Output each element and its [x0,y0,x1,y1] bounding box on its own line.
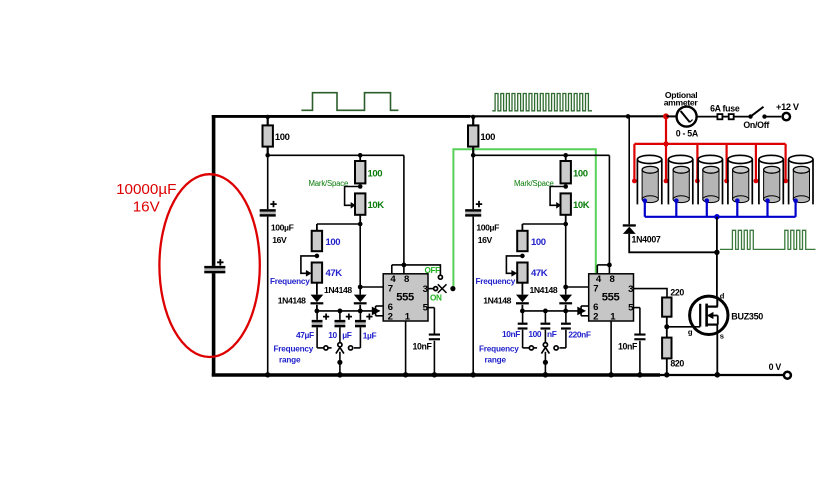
wire cap2 to sel osc2 [544,330,546,343]
wire pin5 to C U2 [639,308,641,334]
capacitor bank C2 (electrolytic can) [668,159,692,204]
selector contact 3 osc2 [554,346,558,350]
svg-text:1N4148: 1N4148 [324,285,352,295]
node A1 [265,153,270,158]
svg-text:Mark/Space: Mark/Space [514,179,554,188]
wire pin5 to C U1 [433,308,435,334]
wire 100uF top osc2 [472,155,474,209]
svg-text:3: 3 [423,284,428,295]
wire 10nF to 0V U1 [433,341,435,375]
svg-text:Frequency: Frequency [274,345,314,354]
svg-text:47K: 47K [326,268,343,279]
capacitor bank C1 (electrolytic can) [637,159,661,204]
svg-text:ammeter: ammeter [664,97,699,107]
svg-text:555: 555 [602,292,620,304]
svg-text:100: 100 [531,237,546,248]
wire 0V bottom rail [212,373,660,376]
selector contact 2 osc2 [543,343,547,347]
selector wiper arrow osc1 [336,347,344,353]
wire cap1 top stub osc1 [316,311,318,320]
capacitor 100uF osc1 [260,209,276,216]
wire mark chain to pin7/diode osc1 [359,224,361,295]
wire timing top osc2 [522,223,565,225]
svg-text:µF: µF [342,330,351,340]
junction pin1-rail U2 [608,372,613,377]
wire 10nF to 0V U2 [639,341,641,375]
wire pin2 stub U1 [376,315,384,317]
junction 100uF-rail osc1 [265,372,270,377]
wire 10K bottom osc2 [565,215,567,224]
wire pins 4-8 bracket U2 [597,264,609,266]
ammeter M1 [677,107,697,127]
selector contact 1 osc1 [324,346,328,350]
svg-text:Mark/Space: Mark/Space [309,179,349,188]
potentiometer 47K osc1 [312,263,322,283]
junction 820-rail [664,372,669,377]
junction mark pot wiper osc2 [563,184,568,189]
wire resistor R1a top stub [267,117,269,125]
wire node A2 to reset drop [473,154,609,156]
junction rail-cap2 osc2 [543,309,548,314]
svg-text:Frequency: Frequency [476,277,516,286]
wire timing rail osc2 [522,310,581,312]
svg-text:10K: 10K [573,200,590,211]
wire 1N4007 to drain node [629,234,717,252]
svg-text:range: range [485,355,507,364]
resistor 100 (R1a) [263,125,273,146]
wire node A1 to reset drop [268,154,404,156]
arrow into pin6 U1 [372,307,381,316]
fuse F1 6A [717,114,722,119]
wire red feed drop [665,116,667,143]
wire cap1 to sel osc1 [316,327,318,348]
svg-text:100: 100 [573,169,588,180]
wire pin6 stub U1 [376,305,384,307]
arrow into pin6 U2 [577,307,586,316]
wire pin3 U2 to R gate [634,289,668,298]
svg-text:1N4148: 1N4148 [278,295,306,305]
svg-text:6A fuse: 6A fuse [710,103,740,113]
wire timing rail osc1 [317,310,376,312]
svg-text:100: 100 [275,132,290,143]
wire R1a bottom stub [267,147,269,156]
junction reset node U1 [402,263,407,268]
diode 1N4148 D2b [559,295,572,303]
potentiometer 10K mark/space osc2 [561,193,571,214]
svg-text:+12 V: +12 V [776,102,800,112]
wire cap1 top stub osc2 [522,311,524,323]
terminal +12V [783,113,790,120]
junction pin7 node osc1 [358,285,363,290]
svg-text:220: 220 [670,287,684,297]
wire red + lead cap bank C5 [755,144,757,181]
wire 100uF top osc1 [267,155,269,209]
wire cap3 top stub osc1 [359,311,361,320]
svg-text:1N4148: 1N4148 [483,295,511,305]
wire mark chain stub osc2 [565,155,567,161]
junction timing top osc2 [563,222,568,227]
selector contact 3 osc1 [349,346,353,350]
wire gate node to gate [667,326,700,328]
wire pin6 stub U2 [581,305,589,307]
svg-text:10K: 10K [368,200,385,211]
svg-text:s: s [720,332,724,341]
svg-text:Frequency: Frequency [270,277,310,286]
wire pins 2-6 bracket U2 [580,306,582,316]
capacitor C2b osc2 [541,323,551,325]
polarity + cap2 osc1 [346,314,352,320]
junction wiper osc2 [543,360,548,365]
svg-text:0 V: 0 V [769,362,782,372]
capacitor 10nF U1 [429,334,440,336]
capacitor bank C5 (electrolytic can) [759,159,783,204]
wire blue - lead cap bank C1 [643,198,648,203]
junction gate node [664,324,669,329]
svg-text:100: 100 [326,237,341,248]
wire V+ top rail [212,115,470,118]
node A2 [471,153,476,158]
svg-text:220nF: 220nF [568,329,590,339]
wire blue - lead cap bank C5 [765,198,770,203]
diode 1N4007 D3 [623,224,636,226]
potentiometer 10K mark/space osc1 [355,193,365,214]
junction wiper osc1 [337,360,342,365]
svg-text:OFF: OFF [425,266,441,275]
transistor Q1 BUZ350 (MOSFET) [690,296,728,334]
wire resistor R2a top stub [472,117,474,125]
capacitor C1b osc1 [335,320,346,327]
svg-text:100: 100 [528,329,542,339]
capacitor C1a osc1 [312,320,323,327]
wire pins 2-6 bracket U1 [375,306,377,316]
wire 100uF to 0V osc1 [267,217,269,375]
junction pin1-rail U1 [403,372,408,377]
wire reset to OFF contact [404,265,441,275]
node V+ tap osc1 [266,115,270,119]
wire 10K bottom osc1 [359,215,361,224]
wire mark chain to pin7/diode osc2 [565,224,567,295]
wire cap bank to drain [716,217,718,296]
wire pin5 stub U1 [428,307,434,309]
wire pin8 stub U1 [403,265,405,274]
waveform square wave (osc1 output) [301,93,398,111]
svg-text:ON: ON [430,293,442,302]
wire pin1 to 0V U1 [405,321,407,375]
capacitor 100uF osc2 [465,209,481,216]
polarity + cap3 osc1 [366,314,372,320]
svg-text:820: 820 [670,359,684,369]
wire cap3 to sel osc2 [565,330,567,348]
svg-text:100µF: 100µF [271,223,294,233]
svg-text:1N4007: 1N4007 [632,234,661,244]
wire V+ to ammeter [666,115,677,117]
svg-text:555: 555 [396,292,414,304]
resistor 820 gate pulldown [662,338,671,359]
switch OFF contact circle [438,275,442,279]
wire cap3 to sel osc1 [359,327,361,348]
junction rail-cap1 osc2 [520,309,525,314]
wire wiper to 0V osc2 [544,352,546,375]
resistor 100 frequency osc1 [312,231,322,251]
capacitor bank C4 (electrolytic can) [728,159,752,204]
terminal 0V [784,372,791,379]
wire pin3 output U1 [428,288,434,290]
junction 100uF-rail osc2 [471,372,476,377]
resistor 100 (R2a) [468,125,478,146]
wire to pin 7 osc2 [566,286,589,288]
svg-text:100: 100 [480,132,495,143]
wire D1b to rail [359,305,361,311]
wire cap2 to sel osc1 [339,327,341,342]
svg-text:BUZ350: BUZ350 [731,312,763,322]
wire pin4 stub U2 [596,265,598,274]
junction reset node U2 [607,263,612,268]
wire gating (green) osc1 output to osc2 reset [453,149,595,288]
wire wiper to 0V osc1 [339,352,341,375]
svg-text:range: range [279,355,301,364]
pot wiper arm 10K osc1 [345,187,361,206]
wire 820 to 0V [666,358,668,375]
svg-text:1N4148: 1N4148 [530,285,558,295]
pot wiper arm 47K osc1 [301,256,317,273]
capacitor 10nF U2 [634,334,645,336]
junction timing top osc1 [358,222,363,227]
wire left supply rail (thick) [212,115,216,376]
wire blue - lead cap bank C6 [793,198,798,203]
op-amp/timer IC 555 U1 [383,274,428,321]
junction rail-cap2 osc1 [338,309,343,314]
svg-text:On/Off: On/Off [743,120,769,130]
junction 10nF-rail U1 [432,372,437,377]
junction rail-cap3 osc2 [563,309,568,314]
wire pin2 stub U2 [581,315,589,317]
potentiometer 47K osc2 [517,263,527,283]
wire ammeter to fuse [697,116,751,118]
svg-text:100: 100 [368,169,383,180]
switch blade (run/stop) [438,284,447,293]
wire pin1 to 0V U2 [610,321,612,375]
wire red + lead cap bank C4 [725,144,727,181]
junction rail-cap3 osc1 [358,309,363,314]
selector wiper arrow osc2 [541,347,549,353]
selector contact 2 osc1 [338,343,342,347]
svg-text:2: 2 [593,311,598,322]
wire V+ junction down to 1N4007 [628,116,630,224]
wire D1a to rail [316,305,318,311]
svg-text:3: 3 [628,284,633,295]
wire V+ to reset U2 [608,155,610,265]
svg-text:7: 7 [593,284,598,295]
junction V+/cap bank (red) [663,113,669,119]
junction freq pot wiper osc2 [520,254,525,259]
wire 47K to diode osc2 [521,283,523,295]
op-amp/timer IC 555 U2 [589,274,634,321]
wire red + lead cap bank C6 [784,144,786,181]
wire blue100 top stub osc1 [316,224,318,231]
wire pin5 stub U2 [634,307,640,309]
svg-text:100µF: 100µF [476,223,499,233]
svg-text:7: 7 [388,284,393,295]
wire D2a to rail [521,305,523,311]
svg-text:Frequency: Frequency [479,345,519,354]
junction source-rail [715,372,721,378]
wire blue - lead cap bank C4 [735,198,740,203]
wire D2b to rail [565,305,567,311]
pot wiper arm 10K osc2 [550,187,566,206]
wire pin4 stub U1 [391,265,393,274]
diode 1N4148 D1a [311,295,324,303]
svg-text:16V: 16V [478,235,493,245]
junction red bus [663,141,668,146]
junction wiper-rail osc1 [337,372,343,378]
wire mark chain stub osc1 [359,155,361,161]
wire R2a bottom stub [472,147,474,156]
svg-text:10000µF: 10000µF [116,181,176,198]
node V+ tap osc2 [471,115,475,119]
svg-text:47K: 47K [531,268,548,279]
polarity + 100uF osc2 [476,201,482,207]
node switch common [450,286,455,291]
svg-text:g: g [688,327,693,336]
highlight ellipse (red) around reservoir capacitor [159,174,259,357]
wire cap2 top stub osc2 [544,311,546,323]
wire source to 0V [716,325,718,375]
switch On/Off S1 [748,114,752,118]
wire blue - lead cap bank C2 [674,198,679,203]
wire red + lead cap bank C2 [665,144,667,181]
wire V+ to reset U1 [403,155,405,265]
capacitor bank C6 (electrolytic can) [789,159,813,204]
svg-text:10: 10 [328,330,337,340]
capacitor C2c osc2 [561,323,571,325]
svg-text:d: d [720,291,725,300]
wire 47K to diode osc1 [316,283,318,295]
waveform gated pulse bursts (at MOSFET drain) [720,230,816,249]
wire blue - bus [645,216,796,218]
wire red + lead cap bank C3 [696,144,698,181]
capacitor bank C3 (electrolytic can) [698,159,722,204]
wire pin8 stub U2 [608,265,610,274]
junction pin7 node osc2 [563,285,568,290]
svg-text:1µF: 1µF [363,331,377,341]
junction mark/space top osc2 [563,153,568,158]
capacitor C2a osc2 [518,323,528,325]
svg-text:0 - 5A: 0 - 5A [676,128,699,138]
wire 220 to 820 [666,317,668,338]
junction drain node [714,250,719,255]
svg-text:16V: 16V [272,235,287,245]
capacitor 10000uF reservoir C0 [204,266,225,273]
svg-text:2: 2 [388,311,393,322]
junction V+/flyback diode [626,114,631,119]
resistor 100 mark/space osc2 [561,161,571,183]
wire red + lead cap bank C1 [633,144,635,181]
resistor 220 gate [662,298,671,317]
switch run/stop terminal ON-side circle [434,287,438,291]
svg-text:47µF: 47µF [296,330,314,340]
capacitor C1c osc1 [355,320,366,327]
svg-text:16V: 16V [133,199,161,216]
svg-text:10nF: 10nF [413,342,433,352]
junction wiper-rail osc2 [543,372,549,378]
selector contact 1 osc2 [529,346,533,350]
junction rail-cap1 osc1 [315,309,320,314]
junction 10nF-rail U2 [637,372,642,377]
svg-text:nF: nF [547,329,557,339]
wire timing top osc1 [317,223,360,225]
wire cap1 to sel osc2 [522,330,524,348]
wire pins 4-8 bracket U1 [392,264,404,266]
wire cap3 top stub osc2 [565,311,567,323]
resistor 100 frequency osc2 [517,231,527,251]
wire 100uF to 0V osc2 [472,217,474,375]
wire cap2 top stub osc1 [339,311,341,320]
junction freq pot wiper osc1 [315,254,320,259]
junction mark pot wiper osc1 [358,184,363,189]
wire blue - lead cap bank C3 [705,198,710,203]
diode 1N4148 D1b [354,295,367,303]
wire red + bus [634,143,785,145]
polarity + 100uF osc1 [270,201,276,207]
junction mark/space top osc1 [358,153,363,158]
waveform fast pulse train (osc2 output) [492,94,592,111]
pot wiper arm 47K osc2 [506,256,522,273]
svg-text:10nF: 10nF [618,342,638,352]
diode 1N4148 D2a [516,295,529,303]
wire to pin 7 osc1 [360,286,383,288]
wire blue100 top stub osc2 [521,224,523,231]
polarity + cap1 osc1 [323,314,329,320]
polarity + reservoir cap [217,259,223,265]
svg-text:10nF: 10nF [502,329,520,339]
resistor 100 mark/space osc1 [355,161,365,183]
